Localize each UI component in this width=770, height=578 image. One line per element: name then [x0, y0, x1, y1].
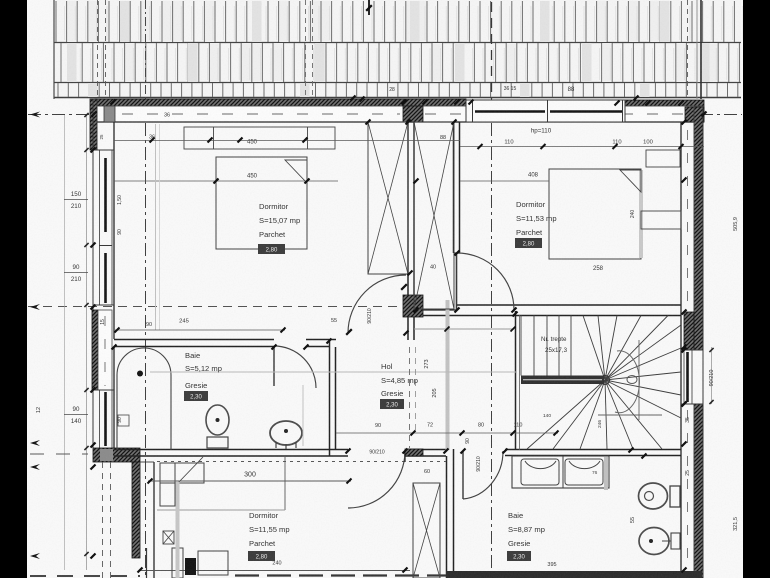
step wall inner face	[153, 462, 155, 578]
chair X bedroom3	[163, 531, 174, 544]
door bedroom2 arc and leaf	[457, 253, 514, 310]
bed2 pillow fold	[620, 170, 641, 192]
bathroom1 east wall	[329, 340, 331, 456]
bedroom3 bathroom2 divider wall	[446, 456, 448, 578]
window top 1	[466, 100, 625, 122]
left wall window lower	[99, 390, 101, 448]
stairs west wall	[515, 311, 517, 450]
nightstand bedroom2 mid	[641, 211, 681, 229]
parapet dashes	[122, 113, 400, 115]
gray aux line bathroom1	[150, 371, 517, 373]
bathroom1 north wall	[114, 339, 274, 341]
wardrobe X bedroom3	[413, 483, 440, 578]
bed1 pillow fold	[285, 160, 307, 183]
pier hatch top-middle	[403, 106, 423, 122]
bottom thin line left part	[140, 570, 410, 572]
roof hidden dashed lines	[97, 0, 99, 99]
wall bedroom2 south / stairs north	[457, 304, 681, 306]
junction tick marks	[111, 100, 116, 105]
bed bedroom2	[549, 169, 641, 259]
toilet bathroom2	[639, 483, 668, 509]
bed bedroom1	[216, 157, 307, 249]
dim line bedroom2	[460, 180, 549, 182]
section mark top	[368, 0, 370, 15]
left wall outer face	[92, 99, 94, 448]
bathtub bathroom1	[117, 348, 171, 450]
door bathroom1 arc	[274, 346, 316, 388]
top exterior wall hatch left	[95, 99, 466, 106]
left wall inner face bedroom1	[113, 122, 115, 339]
stair walk line circle	[615, 351, 639, 413]
dim line through bed1	[114, 180, 338, 182]
left wall inner face bath1	[113, 347, 115, 449]
right wall outer edge	[702, 107, 704, 578]
left wall mid pier hatch	[92, 310, 98, 390]
roof tile band	[54, 0, 748, 99]
bedroom2 west wall	[453, 122, 455, 253]
left step wall horizontal hatch	[93, 448, 140, 462]
sink bathroom1	[270, 421, 302, 445]
right margin dims	[711, 347, 713, 404]
top exterior wall hatch right	[617, 100, 704, 107]
axis line vertical x=491	[491, 99, 493, 578]
bottom dashed cut left margin	[30, 575, 140, 577]
gray aux dim line corridor	[414, 328, 514, 330]
wall below pier to hall	[407, 317, 409, 340]
dim line below top wall left	[114, 140, 460, 142]
stairs group	[521, 315, 681, 449]
toilet bathroom1	[206, 405, 229, 435]
left margin extra vertical dim line	[64, 115, 66, 570]
wall between bedroom1 and wardrobes x408	[407, 122, 409, 295]
dim line 300 bedroom3	[148, 480, 351, 482]
bottom hidden dashed wall line	[235, 574, 446, 576]
vanity basin left	[521, 459, 559, 485]
stair central rail dark	[521, 376, 604, 385]
black flue box	[185, 558, 196, 575]
left margin arrows	[30, 112, 40, 118]
left wall top pier hatch	[90, 99, 97, 150]
door bedroom3 arc	[348, 451, 405, 508]
corridor west gray line	[446, 300, 450, 450]
bottom cut wall dark band	[446, 571, 702, 578]
right wall pier at stair wall	[684, 312, 694, 350]
vanity counter bathroom2	[512, 456, 609, 488]
dim line below top wall right	[460, 146, 704, 148]
door dressing arc	[348, 275, 406, 333]
gray extension pair bedroom1	[155, 124, 157, 330]
stair tread edge vertical right	[638, 340, 640, 420]
headboard strip bedroom1	[184, 127, 335, 149]
fine dashed floor line below hall wall	[157, 461, 446, 463]
pier gray top-left	[104, 106, 115, 122]
stair newel circle	[601, 376, 610, 385]
right wall window	[683, 350, 685, 404]
axis line A horizontal	[28, 114, 742, 116]
pier hatch top-right corner	[685, 107, 704, 122]
stair tread edge horizontal lower	[598, 414, 662, 416]
wall pier hatch mid	[403, 295, 423, 317]
dashed beam lines hall	[409, 347, 411, 448]
roof overhang dashed line y306	[28, 306, 403, 308]
closet line bedroom3	[284, 457, 286, 510]
right wall inner face	[680, 122, 682, 571]
left step wall vertical hatch	[132, 462, 140, 558]
wardrobe left with X	[368, 122, 408, 274]
desk bedroom3	[160, 463, 204, 483]
hatch pier at bedroom3 door	[405, 449, 423, 456]
scattered darker tiles	[67, 43, 77, 82]
door bathroom2 arc	[463, 451, 503, 499]
bathroom2 north wall	[505, 449, 681, 451]
nightstand bedroom2 top	[646, 150, 680, 167]
left wall window upper	[99, 150, 101, 305]
roof left edge	[53, 0, 55, 99]
right wall parapet lines	[693, 107, 695, 350]
dim line y433 hall	[336, 432, 558, 434]
axis line vertical x=146	[145, 99, 147, 578]
wardrobe right with X	[414, 122, 454, 309]
bidet bathroom2	[639, 528, 669, 555]
top wall inner face	[95, 121, 704, 123]
gray extension line bedroom3	[176, 482, 180, 578]
dim line y330 bathroom1	[115, 329, 285, 331]
bottom furniture rects	[198, 551, 228, 575]
left margin dim column	[86, 115, 88, 570]
left margin dashes	[30, 453, 88, 455]
hall south wall with door openings	[114, 449, 348, 451]
step pier gray	[100, 449, 113, 461]
black bar right	[743, 0, 770, 578]
gray extension line bathroom1 sink	[302, 385, 304, 446]
paper grain overlay	[0, 0, 1, 1]
vanity basin right	[565, 459, 603, 485]
roof overhang dashed below step	[102, 462, 104, 578]
black bar left	[0, 0, 27, 578]
right wall outer hatch lower	[694, 404, 703, 578]
top wall parapet band	[95, 106, 704, 122]
right wall outer hatch upper	[694, 107, 703, 350]
gray band right of vanity	[604, 457, 608, 490]
